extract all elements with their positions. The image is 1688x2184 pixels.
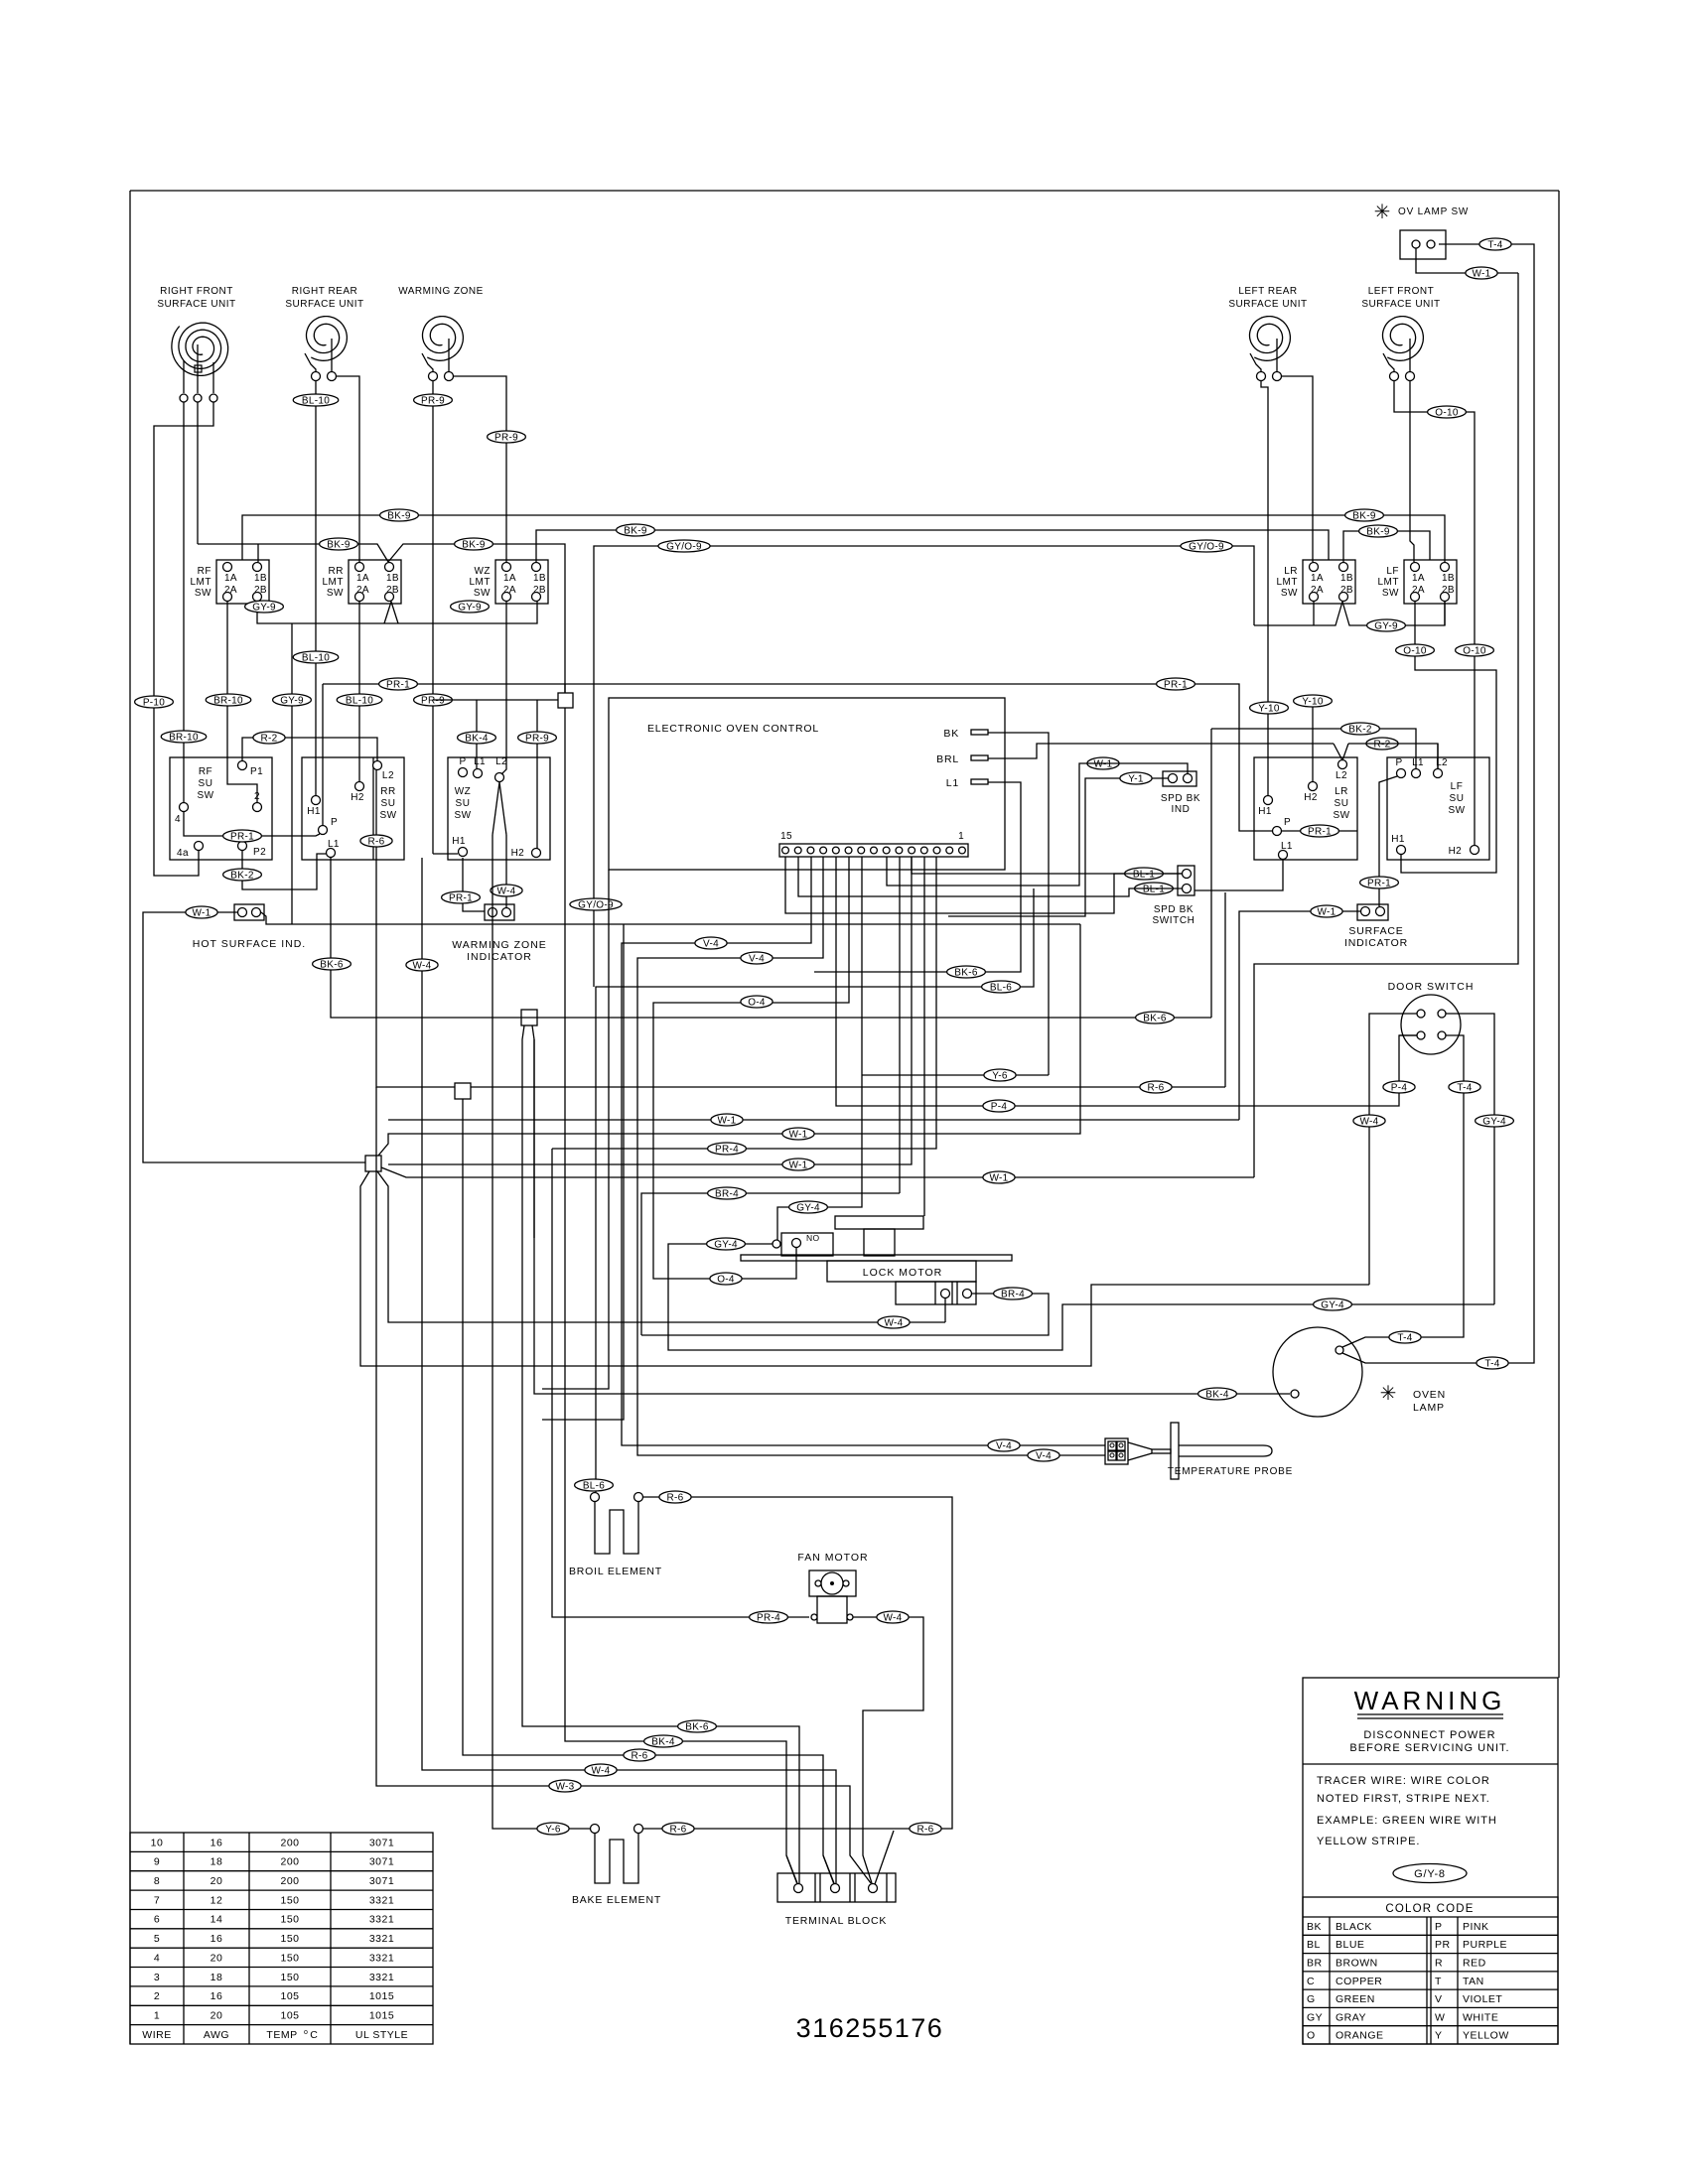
- svg-text:20: 20: [211, 2010, 223, 2022]
- temperature probe: [1105, 1423, 1293, 1479]
- svg-text:INDICATOR: INDICATOR: [467, 951, 532, 963]
- svg-text:P2: P2: [253, 847, 266, 858]
- svg-text:SU: SU: [456, 798, 471, 809]
- svg-text:BK-9: BK-9: [624, 525, 647, 536]
- svg-text:H1: H1: [1391, 834, 1405, 845]
- label PR-9 a: [414, 394, 453, 406]
- svg-text:BK-9: BK-9: [327, 539, 351, 550]
- LF surface unit switch box: [1387, 757, 1489, 860]
- label BL-10 a: [293, 394, 339, 406]
- wire W-1 mid 3: [388, 857, 912, 1164]
- wire eoc left drop: [542, 870, 609, 1389]
- svg-text:PR-4: PR-4: [757, 1612, 780, 1623]
- EOC pin L1: [946, 777, 988, 789]
- svg-text:SU: SU: [381, 798, 396, 809]
- svg-text:V: V: [1435, 1993, 1443, 2005]
- LR SU SW terminal L2: [1336, 760, 1347, 782]
- wire WZ 2A to L2: [501, 602, 506, 774]
- label PR-4 a: [750, 1611, 788, 1623]
- label PR-4 b: [708, 1143, 747, 1155]
- svg-text:1A: 1A: [1311, 573, 1324, 584]
- svg-text:H2: H2: [1449, 846, 1463, 857]
- RF SU SW terminal P1: [238, 761, 264, 778]
- svg-text:200: 200: [280, 1837, 299, 1848]
- svg-text:GRAY: GRAY: [1336, 2011, 1366, 2023]
- RR SU SW L2 partition: [372, 757, 374, 860]
- svg-text:O-4: O-4: [717, 1274, 735, 1285]
- wire R-2 LR L2 vee: [1334, 744, 1438, 768]
- label BL-10 b: [293, 651, 339, 663]
- svg-text:150: 150: [280, 1894, 299, 1906]
- svg-text:COPPER: COPPER: [1336, 1976, 1382, 1987]
- wire p9 GY-4: [777, 857, 862, 1240]
- wire BL-10 RR right lead: [336, 376, 359, 562]
- svg-text:105: 105: [280, 2010, 299, 2022]
- svg-text:BK-2: BK-2: [1348, 724, 1372, 735]
- svg-text:R-2: R-2: [1373, 739, 1390, 750]
- svg-text:15: 15: [780, 831, 792, 842]
- svg-text:1B: 1B: [1340, 573, 1353, 584]
- wire p7 W-1: [887, 763, 1188, 886]
- svg-text:BR-10: BR-10: [213, 695, 243, 706]
- label BK-6 a: [313, 958, 352, 970]
- svg-text:14: 14: [211, 1914, 223, 1926]
- wire BRL pin: [988, 744, 1334, 758]
- svg-text:3321: 3321: [369, 1894, 394, 1906]
- svg-text:HOT SURFACE IND.: HOT SURFACE IND.: [193, 938, 306, 950]
- svg-text:ELECTRONIC OVEN CONTROL: ELECTRONIC OVEN CONTROL: [647, 723, 819, 735]
- wire BL-10 RR left lead to H1: [315, 381, 317, 795]
- right front surface unit terminals: [180, 394, 217, 402]
- wire GY-4 door switch: [1446, 1014, 1494, 1304]
- svg-text:SW: SW: [1333, 810, 1349, 821]
- svg-text:TRACER WIRE: WIRE COLOR: TRACER WIRE: WIRE COLOR: [1317, 1775, 1490, 1787]
- LF limit switch: [1378, 560, 1458, 604]
- wire W-3 from L2 vertical: [376, 1087, 871, 1883]
- svg-text:V-4: V-4: [1036, 1450, 1052, 1461]
- LR SU SW terminal H1: [1258, 796, 1272, 818]
- svg-text:T-4: T-4: [1487, 239, 1502, 250]
- svg-text:16: 16: [211, 1933, 223, 1945]
- svg-text:W-1: W-1: [1317, 906, 1336, 917]
- wire L1 pin BK-6: [814, 782, 1021, 972]
- label GY/O-9 a: [658, 540, 710, 552]
- right rear coil leads: [305, 339, 332, 371]
- svg-text:BK-6: BK-6: [1143, 1013, 1167, 1024]
- LR SU SW terminal H2: [1304, 782, 1318, 804]
- wire p6 BR-4: [899, 857, 901, 1193]
- door switch: [1388, 981, 1475, 1054]
- warming zone indicator: [452, 904, 547, 963]
- terminal block: [777, 1873, 896, 1927]
- svg-text:BRL: BRL: [936, 753, 959, 765]
- left rear surface unit terminals: [1257, 372, 1282, 381]
- wire BR-4 lock motor: [641, 1294, 1049, 1335]
- svg-text:BR: BR: [1307, 1958, 1323, 1970]
- svg-text:W-4: W-4: [884, 1317, 903, 1328]
- svg-text:2A: 2A: [1311, 585, 1324, 596]
- wire W-4 WZ H1 area down: [422, 858, 836, 1883]
- svg-text:BK-6: BK-6: [954, 967, 978, 978]
- svg-text:P: P: [1435, 1921, 1443, 1933]
- RR limit switch: [323, 560, 402, 604]
- svg-text:V-4: V-4: [703, 938, 719, 949]
- svg-text:O-10: O-10: [1403, 645, 1427, 656]
- svg-text:12: 12: [211, 1894, 223, 1906]
- svg-text:W-1: W-1: [989, 1172, 1008, 1183]
- wire BK-9 bus 2: [198, 544, 565, 693]
- RF surface unit switch box: [170, 757, 272, 860]
- label V-4 c: [741, 952, 773, 964]
- svg-text:105: 105: [280, 1990, 299, 2002]
- svg-text:9: 9: [154, 1856, 160, 1868]
- wire p4 lock plate: [923, 857, 925, 1216]
- svg-text:5: 5: [154, 1933, 160, 1945]
- WZ SU SW L2 tent: [492, 782, 506, 835]
- svg-text:o: o: [304, 2029, 308, 2036]
- svg-text:GY-4: GY-4: [1321, 1299, 1344, 1310]
- lock motor assembly: [741, 1216, 1012, 1304]
- svg-text:O-10: O-10: [1463, 645, 1486, 656]
- wire PR-1 LF P to surface ind: [1379, 776, 1397, 906]
- left rear surface unit coil: [1228, 286, 1307, 360]
- label BR-10 b: [206, 694, 251, 706]
- svg-text:BR-4: BR-4: [1001, 1289, 1025, 1299]
- svg-text:1B: 1B: [533, 573, 546, 584]
- wire GY-9 RF-WZ: [257, 602, 537, 623]
- svg-text:6: 6: [154, 1914, 160, 1926]
- svg-text:BEFORE SERVICING UNIT.: BEFORE SERVICING UNIT.: [1349, 1742, 1509, 1754]
- svg-text:SPD BK: SPD BK: [1161, 793, 1200, 804]
- svg-text:3321: 3321: [369, 1972, 394, 1983]
- svg-text:L2: L2: [1336, 770, 1347, 781]
- svg-text:SW: SW: [454, 810, 471, 821]
- svg-text:SURFACE UNIT: SURFACE UNIT: [157, 299, 235, 310]
- svg-text:2B: 2B: [386, 585, 399, 596]
- wire BK-9 bus upper: [242, 515, 1445, 562]
- svg-text:L1: L1: [474, 756, 486, 767]
- label R-6 e: [662, 1823, 694, 1835]
- RR SU SW labels: [379, 770, 396, 821]
- label Y-1 a: [1120, 772, 1152, 784]
- svg-text:NOTED FIRST, STRIPE NEXT.: NOTED FIRST, STRIPE NEXT.: [1317, 1793, 1490, 1805]
- wire BK pin: [988, 733, 1049, 1075]
- svg-text:4a: 4a: [177, 848, 189, 859]
- svg-text:L1: L1: [1412, 757, 1424, 768]
- label W-4 b: [585, 1764, 617, 1776]
- label BK-4 a: [458, 732, 496, 744]
- wire W-4 fan motor: [853, 1617, 923, 1883]
- left front surface unit coil: [1361, 286, 1440, 360]
- svg-text:GREEN: GREEN: [1336, 1993, 1375, 2005]
- svg-text:G/Y-8: G/Y-8: [1414, 1868, 1446, 1880]
- wire BK vertical 1220: [1210, 729, 1212, 1018]
- wire RF 2A to terminal 2: [227, 602, 257, 802]
- svg-text:O-4: O-4: [748, 997, 766, 1008]
- label R-6 c: [624, 1749, 655, 1761]
- RF SU SW terminal P2: [238, 842, 267, 859]
- svg-text:P-10: P-10: [143, 697, 165, 708]
- svg-text:PR-9: PR-9: [421, 395, 445, 406]
- svg-text:1: 1: [958, 831, 964, 842]
- label O-10 a: [1428, 406, 1467, 418]
- label R-6 b: [1140, 1081, 1172, 1093]
- svg-text:LMT: LMT: [1277, 577, 1299, 588]
- electronic oven control box: [609, 698, 1005, 870]
- wire Y-6 line: [862, 1074, 1049, 1076]
- wire PR-9 drop to WZ H2: [536, 700, 538, 849]
- RF SU SW terminal 4: [175, 803, 189, 826]
- svg-text:T: T: [1435, 1976, 1442, 1987]
- EOC pin BRL: [936, 753, 988, 765]
- label BK-2 a: [223, 869, 262, 881]
- wire W-1 hot surface right: [261, 912, 1080, 924]
- spd bk switch: [1152, 866, 1195, 926]
- label BK-9 e: [617, 524, 655, 536]
- label O-4 a: [710, 1273, 742, 1285]
- svg-text:SURFACE: SURFACE: [1348, 925, 1403, 937]
- svg-text:LMT: LMT: [323, 577, 345, 588]
- svg-text:150: 150: [280, 1933, 299, 1945]
- svg-text:T-4: T-4: [1457, 1082, 1472, 1093]
- oven lamp switch OV LAMP SW: [1398, 206, 1469, 259]
- wire BL-6 line: [596, 888, 1034, 1492]
- EOC terminal strip: [779, 831, 968, 857]
- label W-1 a: [186, 906, 217, 918]
- wire T-4 lamp diag: [1342, 1337, 1370, 1347]
- svg-text:SW: SW: [1448, 805, 1465, 816]
- asterisk oven lamp: [1380, 1383, 1397, 1405]
- svg-text:SW: SW: [379, 810, 396, 821]
- svg-text:✳: ✳: [1374, 202, 1391, 223]
- label T-4 a: [1449, 1081, 1480, 1093]
- label W-1 e: [782, 1128, 814, 1140]
- svg-text:BK: BK: [943, 728, 959, 740]
- label W-4 c: [491, 885, 522, 896]
- svg-text:RIGHT FRONT: RIGHT FRONT: [160, 286, 233, 297]
- WZ SU SW terminal H1: [452, 836, 467, 857]
- wire square A to PR-1: [564, 684, 566, 693]
- wire T-4 lamp to ov lamp sw: [1342, 244, 1534, 1363]
- svg-text:2A: 2A: [356, 585, 369, 596]
- svg-text:SW: SW: [1281, 588, 1298, 599]
- svg-text:PR-1: PR-1: [449, 892, 473, 903]
- wire W-1 mid 4 vertical: [1254, 273, 1518, 1177]
- svg-text:BK-9: BK-9: [1352, 510, 1376, 521]
- wire PR-1 LR P to box edge: [1282, 830, 1357, 832]
- svg-text:Y-6: Y-6: [992, 1070, 1008, 1081]
- svg-text:COLOR CODE: COLOR CODE: [1385, 1903, 1474, 1915]
- svg-text:BL-6: BL-6: [583, 1480, 605, 1491]
- svg-text:EXAMPLE: GREEN WIRE WITH: EXAMPLE: GREEN WIRE WITH: [1317, 1815, 1497, 1827]
- svg-text:1015: 1015: [369, 1990, 394, 2002]
- svg-text:R-6: R-6: [666, 1492, 683, 1503]
- wire p12 V-4: [637, 857, 1105, 1455]
- svg-text:T-4: T-4: [1397, 1332, 1412, 1343]
- svg-text:BLUE: BLUE: [1336, 1939, 1364, 1951]
- wire pin B diag: [823, 1855, 834, 1884]
- svg-text:W-1: W-1: [788, 1160, 807, 1170]
- wire R-6 broil: [643, 1497, 952, 1829]
- svg-text:W-1: W-1: [788, 1129, 807, 1140]
- wire W-4 WZ L2 tent right to indicator: [505, 835, 507, 907]
- junction square A: [558, 693, 573, 708]
- svg-text:BK-9: BK-9: [462, 539, 486, 550]
- svg-text:1B: 1B: [1442, 573, 1455, 584]
- wire BK-4 oven lamp line: [534, 1039, 1290, 1394]
- wire W-1 ov lamp sw: [1416, 248, 1518, 273]
- svg-text:16: 16: [211, 1990, 223, 2002]
- svg-text:150: 150: [280, 1914, 299, 1926]
- WZ SU SW terminals P L1 L2: [459, 756, 507, 782]
- svg-text:SPD BK: SPD BK: [1154, 904, 1194, 915]
- LR surface unit switch box: [1254, 757, 1357, 860]
- wire W-4 door switch: [1369, 1014, 1417, 1285]
- broil element: [569, 1493, 662, 1578]
- label PR-1 a: [379, 678, 418, 690]
- svg-text:TERMINAL BLOCK: TERMINAL BLOCK: [785, 1915, 887, 1927]
- fan motor: [797, 1552, 868, 1623]
- label BK-9 b: [1345, 509, 1384, 521]
- svg-text:WIRE: WIRE: [142, 2029, 171, 2041]
- wire R-6 up right: [1224, 892, 1226, 1087]
- wire LR L1 to spd bk switch: [1195, 859, 1283, 890]
- label BK-6 d: [947, 966, 986, 978]
- svg-text:W-1: W-1: [192, 907, 211, 918]
- svg-text:PR-1: PR-1: [1164, 679, 1188, 690]
- WZ SU SW terminal H2: [511, 848, 541, 859]
- svg-text:GY-4: GY-4: [796, 1202, 820, 1213]
- svg-text:R: R: [1435, 1958, 1443, 1970]
- wire square C tent: [360, 1171, 1369, 1366]
- wire BK-4 drop to WZ L1: [476, 700, 478, 768]
- RR SU SW terminal P: [319, 817, 339, 835]
- svg-text:O-10: O-10: [1435, 407, 1459, 418]
- wire PR-1 WZ H1 to indicator: [463, 858, 485, 911]
- wire square C diag upper right: [378, 924, 1080, 1156]
- surface indicator: [1344, 904, 1408, 949]
- svg-text:PR-4: PR-4: [715, 1144, 739, 1155]
- label GY-4 a: [789, 1201, 828, 1213]
- svg-text:18: 18: [211, 1972, 223, 1983]
- svg-text:18: 18: [211, 1856, 223, 1868]
- svg-text:YELLOW: YELLOW: [1463, 2030, 1509, 2042]
- wire BR-10 RF lead to 4: [183, 402, 185, 802]
- svg-text:1A: 1A: [224, 573, 237, 584]
- svg-text:2B: 2B: [254, 585, 267, 596]
- svg-text:R-6: R-6: [669, 1824, 686, 1835]
- svg-text:Y-1: Y-1: [1128, 773, 1144, 784]
- svg-text:SURFACE UNIT: SURFACE UNIT: [285, 299, 363, 310]
- wire BK-6 RR L1 down: [331, 858, 1211, 1018]
- label PR-9 d: [518, 732, 557, 744]
- svg-text:PR-9: PR-9: [494, 432, 518, 443]
- svg-text:V-4: V-4: [749, 953, 765, 964]
- label GY/O-9 b: [1181, 540, 1232, 552]
- warming zone coil leads: [422, 339, 449, 371]
- svg-text:2B: 2B: [533, 585, 546, 596]
- svg-text:INDICATOR: INDICATOR: [1344, 937, 1408, 949]
- label BK-9 d: [455, 538, 493, 550]
- LR limit switch: [1277, 560, 1356, 604]
- left rear coil leads: [1250, 339, 1277, 371]
- svg-text:✳: ✳: [1380, 1383, 1397, 1405]
- svg-text:BR-10: BR-10: [169, 732, 199, 743]
- svg-text:1B: 1B: [386, 573, 399, 584]
- left front coil leads: [1383, 339, 1410, 371]
- part number 316255176: [796, 2013, 944, 2043]
- label BK-9 c: [320, 538, 358, 550]
- label BK-4 c: [1198, 1388, 1237, 1400]
- wire harness stub: [433, 699, 558, 701]
- svg-text:SURFACE UNIT: SURFACE UNIT: [1361, 299, 1440, 310]
- svg-text:C: C: [310, 2029, 318, 2041]
- label W-3 a: [549, 1780, 581, 1792]
- wire p15 BL-1: [785, 857, 1182, 913]
- svg-text:SU: SU: [199, 778, 213, 789]
- svg-text:316255176: 316255176: [796, 2013, 944, 2043]
- hot surface indicator: [193, 904, 306, 950]
- wire LF L2 up: [1437, 744, 1439, 768]
- label BL-6 a: [982, 981, 1021, 993]
- svg-text:7: 7: [154, 1894, 160, 1906]
- svg-text:BLACK: BLACK: [1336, 1921, 1372, 1933]
- svg-text:200: 200: [280, 1875, 299, 1887]
- color code table: [1303, 1897, 1558, 2044]
- svg-text:Y-10: Y-10: [1302, 696, 1324, 707]
- svg-text:RF: RF: [199, 766, 212, 777]
- svg-text:WZ: WZ: [455, 786, 472, 797]
- label BK-2 b: [1341, 723, 1380, 735]
- svg-text:BL-1: BL-1: [1143, 884, 1165, 894]
- svg-text:Y-6: Y-6: [545, 1824, 561, 1835]
- svg-text:L2: L2: [382, 770, 394, 781]
- wire p13 V-4: [622, 857, 1105, 1445]
- label GY/O-9 c: [570, 898, 622, 910]
- svg-text:PR-1: PR-1: [1308, 826, 1332, 837]
- svg-text:PR-9: PR-9: [525, 733, 549, 744]
- left front surface unit terminals: [1390, 372, 1415, 381]
- svg-text:4: 4: [154, 1952, 160, 1964]
- label P-10: [135, 696, 174, 708]
- svg-text:L1: L1: [946, 777, 959, 789]
- svg-text:WARNING: WARNING: [1354, 1686, 1506, 1715]
- svg-text:BL: BL: [1307, 1939, 1321, 1951]
- wire W-1 vertical right: [1239, 911, 1360, 1120]
- svg-text:1A: 1A: [356, 573, 369, 584]
- wire BK-9 LR1B to LF: [1343, 531, 1430, 562]
- label BK-6 c: [678, 1720, 717, 1732]
- svg-text:GY-9: GY-9: [252, 602, 276, 613]
- svg-text:BL-6: BL-6: [990, 982, 1012, 993]
- svg-text:BAKE ELEMENT: BAKE ELEMENT: [572, 1894, 661, 1906]
- svg-text:P: P: [331, 817, 338, 828]
- label R-6 a: [360, 835, 392, 847]
- svg-text:H1: H1: [1258, 806, 1272, 817]
- svg-text:LR: LR: [1284, 566, 1298, 577]
- svg-text:LMT: LMT: [1378, 577, 1400, 588]
- svg-text:WZ: WZ: [474, 566, 491, 577]
- wire PR-1 4 to RR P: [184, 812, 320, 836]
- svg-text:H2: H2: [1304, 792, 1318, 803]
- right front coil leads: [184, 344, 213, 393]
- svg-text:LEFT FRONT: LEFT FRONT: [1368, 286, 1434, 297]
- label W-4 e: [1353, 1115, 1385, 1127]
- svg-text:GY-9: GY-9: [458, 602, 482, 613]
- svg-text:LAMP: LAMP: [1413, 1402, 1445, 1414]
- label W-1 b: [1087, 757, 1119, 769]
- label BL-1 b: [1135, 883, 1174, 894]
